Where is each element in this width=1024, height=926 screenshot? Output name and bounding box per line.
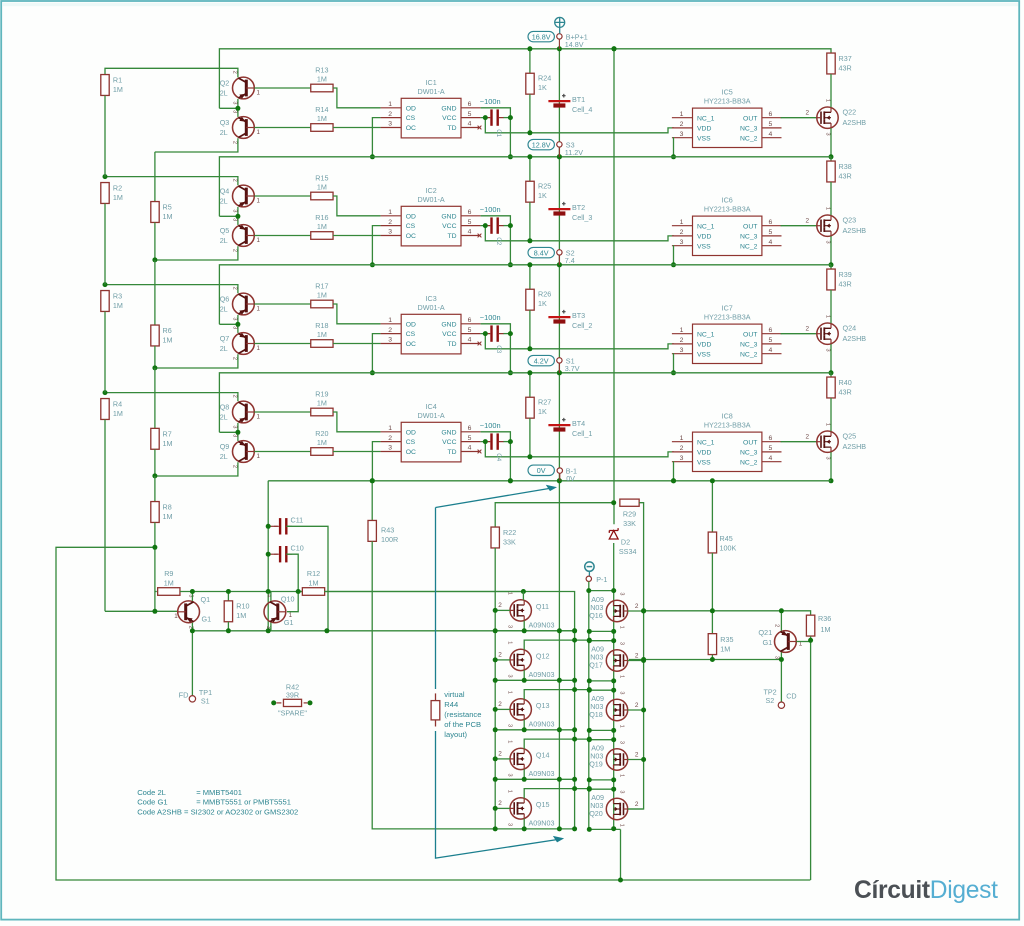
wire Q18 source row (589, 729, 613, 731)
svg-text:GND: GND (441, 213, 456, 220)
svg-text:R43: R43 (381, 525, 394, 534)
svg-text:5: 5 (468, 219, 472, 226)
node 12.8V label (528, 139, 554, 149)
power flag P-1 (585, 562, 594, 571)
wire Q11 source (523, 621, 525, 631)
svg-text:S2: S2 (766, 696, 775, 705)
resistor R44 virtual (spliced in annotation line) (435, 693, 437, 700)
wire Q1 collector to R9 line (191, 592, 193, 601)
transistor Q9 (233, 441, 255, 463)
svg-text:NC_2: NC_2 (740, 459, 758, 466)
svg-text:NC_2: NC_2 (740, 243, 758, 250)
transistor Q2 (233, 77, 255, 99)
svg-text:2L: 2L (220, 344, 228, 353)
svg-text:14.8V: 14.8V (565, 40, 584, 49)
wire Q3 base to R14 (254, 127, 310, 129)
wire B-1 column (558, 481, 560, 829)
svg-text:2: 2 (232, 357, 238, 360)
svg-text:"SPARE": "SPARE" (278, 708, 307, 717)
svg-text:2: 2 (498, 602, 502, 609)
svg-text:4: 4 (468, 445, 472, 452)
svg-text:A09N03: A09N03 (529, 769, 555, 778)
svg-text:2: 2 (806, 109, 810, 116)
svg-text:1M: 1M (317, 291, 327, 300)
junction dots row3 (103, 262, 834, 375)
node 8.4V label (528, 247, 554, 257)
resistor R43 100R (368, 520, 376, 541)
svg-text:3: 3 (680, 131, 684, 138)
wire R16 to IC pin3 and CS/bus tie (333, 235, 381, 237)
svg-text:NC_3: NC_3 (740, 342, 758, 349)
svg-text:1: 1 (388, 209, 392, 216)
svg-text:4: 4 (769, 131, 773, 138)
resistor R27 1K (529, 373, 531, 397)
svg-text:6: 6 (468, 209, 472, 216)
svg-text:1M: 1M (163, 336, 173, 345)
svg-text:6: 6 (468, 425, 472, 432)
svg-text:2: 2 (498, 800, 502, 807)
svg-text:IC5: IC5 (722, 88, 733, 97)
svg-text:1: 1 (388, 317, 392, 324)
svg-text:C10: C10 (291, 543, 304, 552)
wire Q18 gate (628, 709, 644, 711)
svg-text:1: 1 (618, 824, 624, 827)
transistor Q1 (178, 601, 200, 623)
svg-text:NC_2: NC_2 (740, 135, 758, 142)
svg-text:2: 2 (806, 325, 810, 332)
svg-text:CS: CS (406, 331, 416, 338)
transistor Q18 A09N03 (606, 699, 627, 720)
svg-text:Q21: Q21 (758, 628, 772, 637)
svg-text:2L: 2L (220, 196, 228, 205)
svg-text:2: 2 (498, 652, 502, 659)
svg-text:D2: D2 (621, 538, 630, 547)
diode D2 SS34 (609, 528, 618, 539)
wire bus row1 (top rail y=49) (219, 49, 831, 109)
svg-text:2: 2 (498, 751, 502, 758)
svg-text:S1: S1 (201, 697, 210, 706)
svg-text:2: 2 (388, 219, 392, 226)
transistor Q4 (233, 185, 255, 207)
svg-text:Q8: Q8 (220, 402, 230, 411)
svg-text:2: 2 (635, 702, 639, 709)
wire R12 output to Q16 gate line (324, 591, 523, 593)
svg-text:1M: 1M (309, 579, 319, 588)
svg-text:OUT: OUT (743, 115, 757, 122)
svg-text:A2SHB: A2SHB (843, 334, 867, 343)
test point TP1 (189, 696, 195, 702)
resistor R25 1K (529, 157, 531, 181)
annotation arrow to B-1 node (436, 488, 557, 858)
wire 0V rail to bottom line (267, 481, 269, 631)
svg-text:A09N03: A09N03 (529, 620, 555, 629)
svg-text:3: 3 (618, 741, 624, 744)
svg-text:Code A2SHB = SI2302 or AO2302: Code A2SHB = SI2302 or AO2302 or GMS2302 (137, 807, 298, 816)
svg-text:CS: CS (406, 223, 416, 230)
svg-text:11.2V: 11.2V (565, 148, 583, 157)
svg-text:8.4V: 8.4V (534, 248, 549, 257)
svg-text:HY2213-BB3A: HY2213-BB3A (704, 313, 751, 322)
svg-text:3: 3 (507, 823, 513, 826)
svg-text:3: 3 (618, 592, 624, 595)
svg-text:NC_1: NC_1 (697, 331, 715, 338)
svg-text:6: 6 (769, 435, 773, 442)
svg-text:Cell_4: Cell_4 (572, 105, 592, 114)
svg-text:3: 3 (774, 656, 780, 659)
svg-text:FD: FD (179, 691, 189, 700)
svg-text:G1: G1 (202, 614, 212, 623)
svg-text:A2SHB: A2SHB (843, 118, 867, 127)
resistor R10 1M (227, 592, 229, 601)
resistor R24 1K (529, 49, 531, 73)
svg-text:(resistance: (resistance (444, 710, 481, 719)
svg-text:1M: 1M (163, 212, 173, 221)
capacitor C3 ~100n (503, 333, 510, 335)
wire R5-column above R6 (154, 260, 156, 325)
svg-text:1M: 1M (163, 512, 173, 521)
svg-text:1: 1 (174, 613, 178, 620)
svg-text:3: 3 (232, 317, 238, 320)
wire Q21 base to R36 (796, 641, 810, 643)
svg-text:2: 2 (635, 751, 639, 758)
svg-text:OD: OD (406, 105, 416, 112)
svg-text:1K: 1K (538, 299, 547, 308)
transistor Q17 A09N03 (606, 650, 627, 671)
svg-text:1: 1 (507, 790, 513, 793)
svg-text:1: 1 (680, 111, 684, 118)
resistor R37 43R (827, 53, 835, 74)
svg-text:R38: R38 (839, 162, 852, 171)
svg-text:Cell_1: Cell_1 (572, 429, 592, 438)
svg-text:of the PCB: of the PCB (444, 720, 481, 729)
wire Q23 source to bus (830, 236, 832, 265)
svg-text:3: 3 (507, 675, 513, 678)
capacitor C10 (268, 553, 278, 555)
resistor R26 1K (529, 265, 531, 289)
svg-text:P-1: P-1 (596, 575, 607, 584)
wire R12 left node (298, 591, 303, 593)
transistor Q22 A2SHB (817, 107, 838, 128)
svg-text:= MMBT5551 or PMBT5551: = MMBT5551 or PMBT5551 (196, 798, 291, 807)
svg-text:4: 4 (468, 337, 472, 344)
svg-text:Q4: Q4 (220, 186, 230, 195)
svg-text:5: 5 (769, 121, 773, 128)
wire IC7 OUT to Q24 gate (781, 333, 817, 335)
junction dots row1 (235, 46, 833, 159)
svg-text:Q10: Q10 (281, 594, 295, 603)
resistor R9 1M (155, 591, 157, 593)
svg-text:1: 1 (257, 237, 261, 244)
svg-text:R26: R26 (538, 289, 551, 298)
wire Q20 drain row (589, 788, 613, 790)
wire R2 bottom (104, 204, 106, 285)
svg-text:CD: CD (786, 691, 796, 700)
svg-text:R29: R29 (623, 510, 636, 519)
svg-text:1: 1 (825, 423, 831, 426)
junction dots mosfet row 1 (493, 608, 646, 634)
resistor R7 1M (151, 428, 159, 449)
svg-text:2: 2 (232, 287, 238, 290)
wire Q20 source row (589, 828, 620, 830)
svg-text:Q9: Q9 (220, 442, 230, 451)
svg-text:3: 3 (825, 133, 831, 136)
wire R1 bottom (104, 96, 106, 177)
wire R17 to IC pin1 (333, 304, 381, 324)
op-amp IC3 DW01-A (381, 314, 481, 354)
wire Q7 base to R18 (254, 343, 310, 345)
svg-text:2L: 2L (220, 128, 228, 137)
wire Q1 base line (105, 610, 178, 612)
svg-text:1: 1 (257, 197, 261, 204)
wire Q21 emitter to TP2 (780, 652, 782, 659)
svg-text:1M: 1M (163, 439, 173, 448)
svg-text:1M: 1M (113, 193, 123, 202)
svg-text:G1: G1 (762, 638, 772, 647)
svg-text:Q25: Q25 (843, 432, 857, 441)
svg-text:R16: R16 (315, 213, 328, 222)
transistor Q14 A09N03 (510, 748, 531, 769)
svg-text:43R: 43R (839, 63, 852, 72)
svg-text:VCC: VCC (442, 223, 456, 230)
wire below R6 (154, 346, 156, 368)
svg-text:R22: R22 (503, 528, 516, 537)
svg-text:100K: 100K (720, 544, 737, 553)
svg-text:43R: 43R (839, 387, 852, 396)
resistor R17 1M (311, 300, 333, 308)
transistor Q11 A09N03 (510, 600, 531, 621)
junction dots right drive (618, 608, 813, 882)
wire gate-drive line A (711, 553, 713, 611)
svg-text:OC: OC (406, 125, 416, 132)
wire Q10 collector/emitter (270, 592, 272, 601)
svg-text:43R: 43R (839, 171, 852, 180)
svg-text:2: 2 (388, 111, 392, 118)
wire R22 from top (495, 503, 613, 527)
svg-text:7.4: 7.4 (565, 256, 575, 265)
svg-text:4: 4 (769, 347, 773, 354)
svg-text:3: 3 (388, 445, 392, 452)
svg-text:R4: R4 (113, 399, 122, 408)
junction dots Q1/Q10 area (152, 524, 577, 634)
wire R5-column above R7 (154, 368, 156, 428)
op-amp IC2 DW01-A (381, 206, 481, 246)
svg-text:3: 3 (232, 434, 238, 437)
svg-text:R45: R45 (720, 534, 733, 543)
svg-text:1: 1 (257, 129, 261, 136)
svg-text:3: 3 (680, 239, 684, 246)
svg-text:~100n: ~100n (480, 205, 501, 214)
svg-text:1: 1 (507, 740, 513, 743)
op-amp IC4 DW01-A (381, 422, 481, 462)
wire Q7 emitter to R5 column (155, 354, 238, 368)
wire Q17 source row (589, 680, 613, 682)
svg-text:virtual: virtual (444, 690, 465, 699)
svg-text:VDD: VDD (697, 342, 711, 349)
svg-text:3: 3 (680, 347, 684, 354)
svg-text:12.8V: 12.8V (532, 140, 551, 149)
svg-text:Q19: Q19 (589, 759, 603, 768)
svg-text:Code G1: Code G1 (137, 798, 167, 807)
svg-text:VSS: VSS (697, 135, 711, 142)
svg-text:2: 2 (498, 701, 502, 708)
svg-text:A09N03: A09N03 (529, 670, 555, 679)
wire Q13 drain (524, 690, 589, 700)
wire Q17 drain row (589, 640, 613, 642)
test point TP2 (778, 702, 784, 708)
svg-text:R2: R2 (113, 183, 122, 192)
svg-text:layout): layout) (444, 730, 467, 739)
resistor R4 1M (101, 399, 109, 420)
svg-text:1: 1 (825, 207, 831, 210)
wire Q16 source row (589, 630, 613, 632)
resistor R29 33K (620, 499, 639, 506)
svg-text:1: 1 (289, 612, 293, 619)
node 0V label (528, 465, 554, 475)
svg-text:1: 1 (257, 89, 261, 96)
wire Q16 gate (628, 610, 644, 612)
wire IC6 OUT to Q23 gate (781, 225, 817, 227)
svg-text:2: 2 (806, 217, 810, 224)
svg-text:TD: TD (447, 341, 456, 348)
wire Q8 base to R19 (254, 411, 310, 413)
svg-text:3: 3 (825, 349, 831, 352)
svg-text:2: 2 (680, 229, 684, 236)
op-amp IC5 HY2213-BB3A (672, 108, 782, 147)
resistor R39 43R (830, 265, 832, 269)
svg-text:3: 3 (618, 790, 624, 793)
svg-text:~100n: ~100n (480, 421, 501, 430)
svg-text:R3: R3 (113, 291, 122, 300)
svg-text:TD: TD (447, 449, 456, 456)
wire Q14 gate (495, 758, 510, 760)
wire R29 right to charge gates column (628, 503, 644, 809)
svg-text:VDD: VDD (697, 450, 711, 457)
resistor R1 1M (101, 75, 109, 96)
resistor R8 1M (151, 502, 159, 523)
transistor Q13 A09N03 (510, 699, 531, 720)
svg-text:VDD: VDD (697, 126, 711, 133)
transistor Q16 A09N03 (606, 600, 627, 621)
svg-text:C3: C3 (495, 345, 502, 353)
wire R-top to Q2 collector (105, 68, 238, 77)
wire R22 column to mosfet gates (494, 548, 496, 829)
wire R13 to IC pin1 (333, 88, 381, 108)
op-amp IC7 HY2213-BB3A (672, 324, 782, 363)
dots 0V bus (370, 478, 375, 483)
svg-text:3: 3 (388, 337, 392, 344)
svg-text:6: 6 (769, 111, 773, 118)
svg-text:R27: R27 (538, 397, 551, 406)
svg-text:NC_3: NC_3 (740, 450, 758, 457)
transistor Q21 (775, 631, 797, 653)
wire R-top to Q8 collector (105, 393, 238, 402)
wire Q1 emitter to bottom line and TP1 (191, 623, 193, 696)
svg-text:1M: 1M (317, 399, 327, 408)
wire bus row3 (top rail y=265) (219, 265, 831, 325)
transistor Q25 A2SHB (817, 431, 838, 452)
svg-text:A2SHB: A2SHB (843, 226, 867, 235)
wire C10 right to Q10 base node (286, 554, 298, 612)
svg-text:2: 2 (635, 801, 639, 808)
svg-text:6: 6 (468, 101, 472, 108)
svg-text:2: 2 (388, 327, 392, 334)
svg-text:OD: OD (406, 213, 416, 220)
svg-text:Q12: Q12 (536, 652, 550, 661)
wire D2 to Q16 drains (613, 543, 615, 829)
svg-text:1: 1 (618, 675, 624, 678)
svg-text:2: 2 (232, 179, 238, 182)
svg-text:Q3: Q3 (220, 118, 230, 127)
svg-text:3: 3 (507, 724, 513, 727)
svg-text:Q6: Q6 (220, 294, 230, 303)
wire Q24 source to bus (830, 344, 832, 373)
svg-text:5: 5 (468, 435, 472, 442)
wire R43 from 0V bus (371, 481, 373, 521)
no-connect mark IC2 TD pin4 (478, 234, 482, 238)
wire R5-column above R5 (154, 152, 156, 202)
wire Q19 drain row (589, 739, 613, 741)
junction dots mosfet row 4 (493, 737, 646, 783)
svg-text:1M: 1M (317, 75, 327, 84)
svg-text:Q24: Q24 (843, 324, 857, 333)
resistor R12 1M (302, 588, 324, 596)
resistor R16 1M (311, 232, 333, 240)
wire 0V bus (268, 480, 831, 482)
svg-text:R36: R36 (818, 614, 831, 623)
svg-text:NC_3: NC_3 (740, 234, 758, 241)
junction dots mosfet row 5 (493, 786, 617, 832)
svg-text:Q20: Q20 (589, 809, 603, 818)
svg-text:1M: 1M (317, 330, 327, 339)
wire Q20 gate (628, 808, 644, 810)
svg-text:NC_1: NC_1 (697, 439, 715, 446)
svg-text:2L: 2L (220, 412, 228, 421)
wire R20 to IC pin3 and CS/bus tie (333, 451, 381, 453)
wire bus row4 (top rail y=373) (219, 373, 831, 433)
svg-text:R39: R39 (839, 270, 852, 279)
svg-text:CírcuitDigest: CírcuitDigest (854, 877, 998, 904)
svg-text:Q13: Q13 (536, 701, 550, 710)
resistor R19 1M (311, 408, 333, 416)
wire IC8 OUT to Q25 gate (781, 441, 817, 443)
svg-text:VCC: VCC (442, 115, 456, 122)
svg-text:R35: R35 (720, 635, 733, 644)
node P-1 (586, 576, 591, 581)
wire bus row2 (top rail y=157) (219, 157, 831, 217)
wire C11 right to bottom line (286, 526, 328, 631)
svg-text:4: 4 (468, 121, 472, 128)
svg-text:1M: 1M (317, 183, 327, 192)
svg-text:1: 1 (257, 345, 261, 352)
svg-text:5: 5 (769, 229, 773, 236)
svg-text:Cell_2: Cell_2 (572, 321, 592, 330)
svg-text:R19: R19 (315, 390, 328, 399)
transistor Q8 (233, 401, 255, 423)
svg-text:A09N03: A09N03 (529, 818, 555, 827)
wire R45 from 0V bus (711, 481, 713, 532)
svg-text:R12: R12 (307, 569, 320, 578)
svg-text:Q15: Q15 (536, 800, 550, 809)
resistor R42 39R spare (271, 700, 276, 705)
svg-text:HY2213-BB3A: HY2213-BB3A (704, 421, 751, 430)
svg-text:Q14: Q14 (536, 751, 550, 760)
svg-text:1M: 1M (164, 579, 174, 588)
wire Q4 base to R15 (254, 195, 310, 197)
battery BT4 Cell_1 (558, 373, 560, 481)
svg-text:0V: 0V (566, 474, 575, 483)
svg-text:4: 4 (769, 455, 773, 462)
svg-text:R14: R14 (315, 105, 328, 114)
